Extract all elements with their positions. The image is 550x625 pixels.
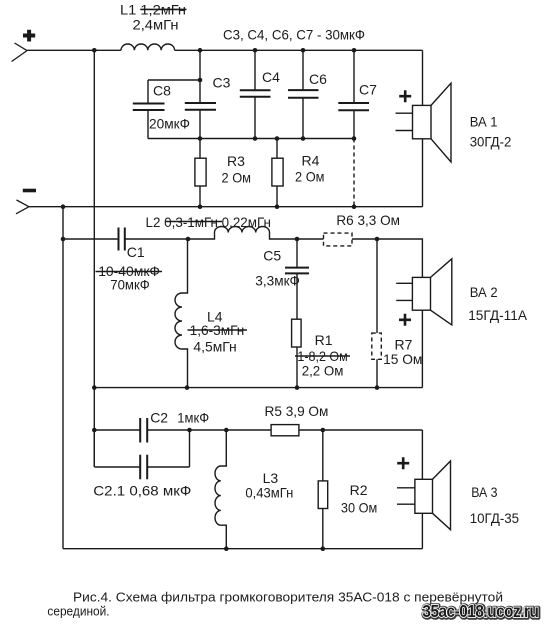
svg-text:ВА 3: ВА 3 xyxy=(471,484,497,500)
label L3 value 0,43мГн xyxy=(245,470,293,501)
node R4 top xyxy=(275,136,280,141)
label C3 xyxy=(213,75,231,91)
label BA1 30ГД-2 xyxy=(470,113,512,149)
label C2 value 1мкФ xyxy=(150,409,209,425)
label R3 value 2 Ом xyxy=(222,153,252,185)
svg-text:20мкФ: 20мкФ xyxy=(149,115,190,131)
svg-text:C3: C3 xyxy=(213,75,231,91)
wire C2 to R5 xyxy=(190,429,272,431)
wire minus rail xyxy=(29,206,423,208)
capacitor C4 xyxy=(240,50,271,138)
caption xyxy=(47,590,503,619)
label R2 value 30 Ом xyxy=(341,482,377,515)
svg-text:C1: C1 xyxy=(127,244,145,260)
strikethrough L4 old value xyxy=(188,329,248,331)
svg-text:C6: C6 xyxy=(309,71,327,87)
node C5 top xyxy=(295,237,300,242)
svg-text:0,43мГн: 0,43мГн xyxy=(245,485,293,501)
label C7 xyxy=(359,82,377,98)
label R6 value 3,3 Ом xyxy=(336,212,400,228)
svg-text:R7: R7 xyxy=(395,336,413,352)
svg-text:1мкФ: 1мкФ xyxy=(177,409,209,425)
label C2.1 value 0,68 мкФ xyxy=(93,483,191,499)
label C8 and value 20мкФ xyxy=(149,82,190,131)
resistor R4 xyxy=(272,139,283,207)
label R5 value 3,9 Ом xyxy=(265,403,329,419)
wire BA3 feed xyxy=(421,430,423,479)
value label C3,C4,C6,C7 xyxy=(223,26,365,42)
label BA3 10ГД-35 xyxy=(470,484,520,526)
svg-text:4,5мГн: 4,5мГн xyxy=(193,338,236,354)
node C8 join xyxy=(198,78,203,83)
svg-text:3,3мкФ: 3,3мкФ xyxy=(255,272,300,288)
node C4 bottom xyxy=(253,136,258,141)
capacitor C6 xyxy=(288,50,319,138)
node C7 top xyxy=(352,48,357,53)
svg-text:С2.1 0,68 мкФ: С2.1 0,68 мкФ xyxy=(93,483,191,499)
svg-text:2,4мГн: 2,4мГн xyxy=(133,16,179,32)
wire C8 top xyxy=(148,79,200,81)
svg-text:R6 3,3 Ом: R6 3,3 Ом xyxy=(336,212,400,228)
node L2 left xyxy=(186,237,191,242)
strikethrough R1 old value xyxy=(295,355,350,357)
node R2 bottom xyxy=(321,546,326,551)
resistor R5 xyxy=(271,425,422,436)
capacitor C7 xyxy=(338,50,369,138)
svg-text:ВА 1: ВА 1 xyxy=(470,113,498,129)
svg-text:10ГД-35: 10ГД-35 xyxy=(470,510,520,526)
node C1 left xyxy=(61,237,66,242)
node C6 top xyxy=(301,48,306,53)
wire BA2 feed xyxy=(377,239,422,277)
value label L2 xyxy=(146,214,271,230)
svg-text:2,2 Ом: 2,2 Ом xyxy=(302,362,344,378)
capacitor C2 xyxy=(94,418,189,443)
svg-text:R5 3,9 Ом: R5 3,9 Ом xyxy=(265,403,329,419)
svg-text:2 Ом: 2 Ом xyxy=(222,169,252,185)
node R7 bottom xyxy=(375,385,380,390)
svg-text:серединой.: серединой. xyxy=(47,603,109,618)
wire plus drop vertical xyxy=(93,50,95,467)
resistor R7 dashed xyxy=(372,239,382,388)
strikethrough L1 old value xyxy=(140,8,186,10)
node C2 right xyxy=(187,428,192,433)
input terminal plus xyxy=(12,30,36,62)
resistor R6 dashed xyxy=(297,233,377,246)
label R4 value 2 Ом xyxy=(295,153,325,185)
wire dashed C7 to minus rail xyxy=(353,139,355,207)
svg-text:30 Ом: 30 Ом xyxy=(341,500,377,516)
wire plus rail xyxy=(27,49,121,51)
label L4 values 1,6-3мГн / 4,5мГн xyxy=(190,308,245,354)
node R1 bottom xyxy=(295,385,300,390)
wire bottom rail xyxy=(63,548,422,550)
label C1 values 10-40мкФ / 70мкФ xyxy=(98,244,160,292)
svg-text:2 Ом: 2 Ом xyxy=(295,169,325,185)
inductor L2 xyxy=(188,227,297,240)
svg-text:C2: C2 xyxy=(150,409,168,425)
inductor L1 xyxy=(121,44,175,50)
capacitor C1 xyxy=(63,228,188,251)
node C7 bottom xyxy=(352,136,357,141)
capacitor C5 xyxy=(285,239,309,319)
svg-text:C7: C7 xyxy=(359,82,377,98)
svg-text:15ГД-11А: 15ГД-11А xyxy=(468,307,527,323)
node C3 bottom xyxy=(198,136,203,141)
node C2 left xyxy=(92,428,97,433)
resistor R2 xyxy=(318,430,328,549)
node C6 bottom xyxy=(301,136,306,141)
watermark 35ac-018.ucoz.ru xyxy=(422,601,539,622)
wire caps bottom xyxy=(148,138,354,140)
speaker BA3 xyxy=(397,457,451,549)
svg-text:R1: R1 xyxy=(315,332,333,348)
value label L1 xyxy=(120,2,186,33)
node C3 top xyxy=(198,48,203,53)
input terminal minus xyxy=(16,191,36,214)
capacitor C8 xyxy=(133,80,165,139)
node plus-drop top xyxy=(92,48,97,53)
label C5 value 3,3мкФ xyxy=(255,248,300,289)
node minus drop xyxy=(61,204,66,209)
svg-text:R4: R4 xyxy=(302,153,320,169)
svg-text:30ГД-2: 30ГД-2 xyxy=(470,133,512,149)
node L3 bottom xyxy=(224,546,229,551)
speaker BA1 xyxy=(396,50,452,206)
node R4 bottom xyxy=(275,204,280,209)
node L4 bottom xyxy=(185,385,190,390)
node C4 top xyxy=(253,48,258,53)
svg-text:C5: C5 xyxy=(263,248,281,264)
svg-text:C4: C4 xyxy=(262,69,280,85)
svg-text:R2: R2 xyxy=(350,482,368,498)
label R1 values 1-8,2 Ом / 2,2 Ом xyxy=(297,332,347,378)
speaker BA2 xyxy=(396,259,452,388)
capacitor C2.1 xyxy=(94,430,189,479)
node R3 bottom xyxy=(198,204,203,209)
svg-text:C3, C4, C6, C7 - 30мкФ: C3, C4, C6, C7 - 30мкФ xyxy=(223,26,365,42)
svg-text:15 Ом: 15 Ом xyxy=(383,351,422,367)
resistor R3 xyxy=(195,139,206,207)
label BA2 15ГД-11А xyxy=(468,284,527,323)
wire plus rail right xyxy=(175,49,423,51)
strikethrough L2 old value xyxy=(165,221,222,223)
inductor L3 xyxy=(215,430,226,549)
resistor R1 xyxy=(292,319,302,387)
node R7 top xyxy=(375,237,380,242)
node dashed bottom xyxy=(352,204,357,209)
label C4 xyxy=(262,69,280,85)
node middle rail left xyxy=(92,385,97,390)
capacitor C3 xyxy=(185,50,216,138)
node R2 top xyxy=(321,428,326,433)
wire minus drop vertical xyxy=(62,207,64,549)
svg-text:C8: C8 xyxy=(153,82,171,98)
inductor L4 xyxy=(175,239,188,388)
svg-text:ВА 2: ВА 2 xyxy=(470,284,498,300)
svg-text:35ac-018.ucoz.ru: 35ac-018.ucoz.ru xyxy=(422,601,538,621)
strikethrough C1 old value xyxy=(96,271,163,273)
label R7 value 15 Ом xyxy=(383,336,422,367)
svg-text:70мкФ: 70мкФ xyxy=(110,276,149,292)
svg-text:R3: R3 xyxy=(227,153,245,169)
label C6 xyxy=(309,71,327,87)
wire middle rail xyxy=(94,387,422,389)
node L3 top xyxy=(224,428,229,433)
